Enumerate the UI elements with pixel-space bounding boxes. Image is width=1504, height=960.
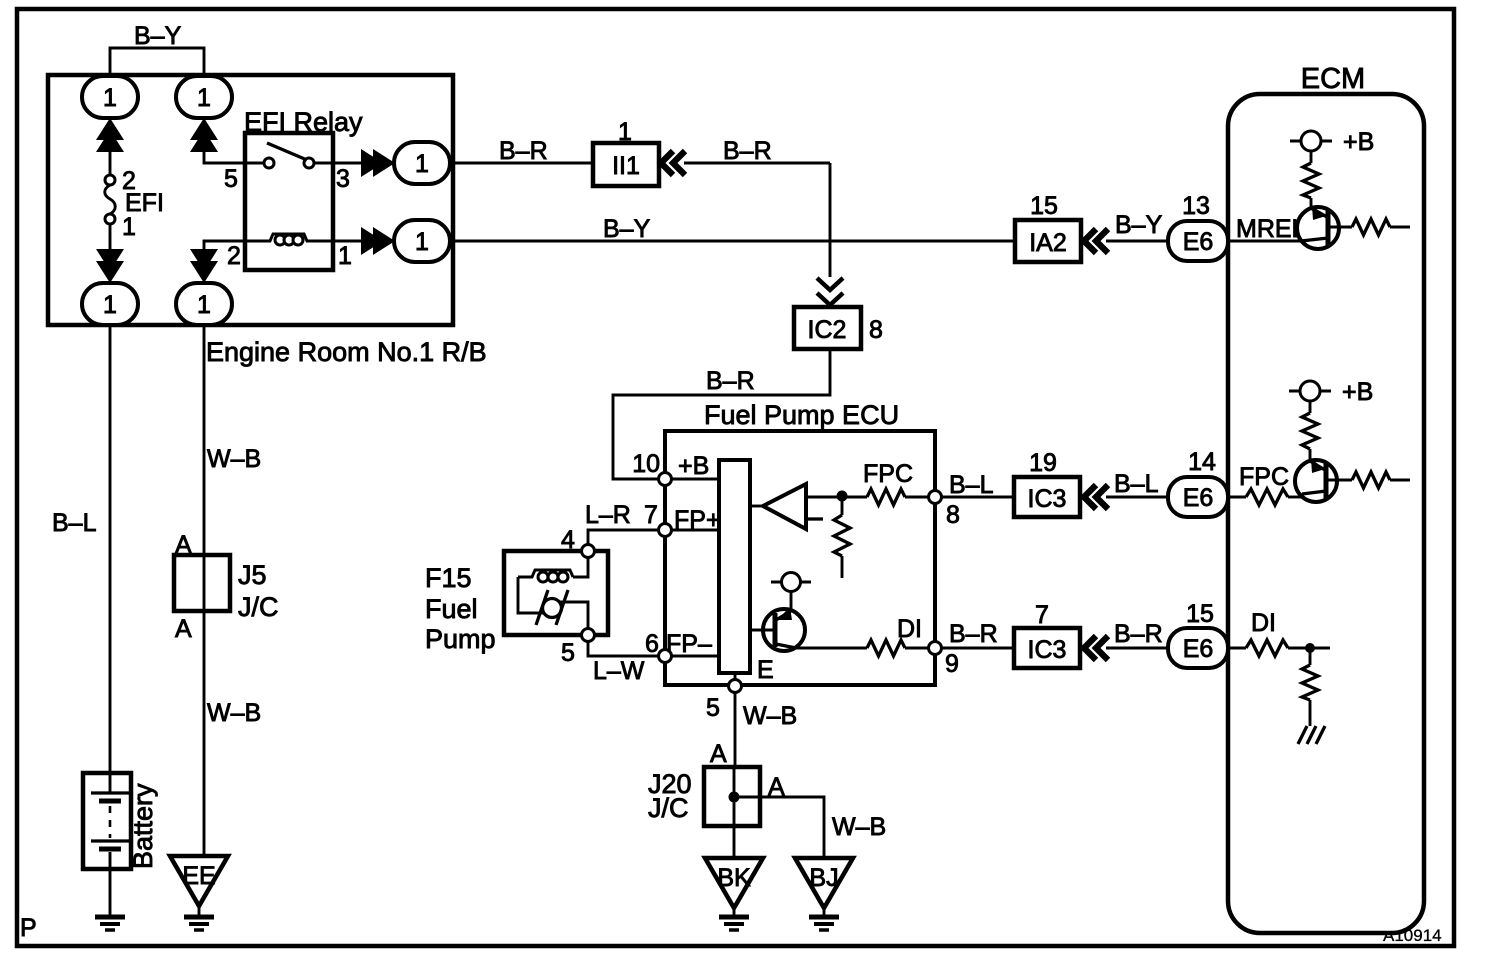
arrow right solid row1	[361, 149, 395, 177]
svg-text:B–Y: B–Y	[603, 215, 651, 243]
svg-text:FPC: FPC	[863, 460, 913, 488]
svg-text:B–R: B–R	[1114, 620, 1163, 648]
pump motor slashes	[536, 590, 568, 625]
fuse EFI	[105, 175, 116, 224]
ground triangle EE	[170, 856, 228, 906]
svg-text:ECM: ECM	[1301, 63, 1365, 95]
svg-text:15: 15	[1030, 192, 1058, 220]
svg-text:BK: BK	[717, 864, 751, 892]
wire ECU pin5 to J20	[734, 692, 737, 767]
pin 5 ECU bottom	[729, 680, 742, 693]
wire col2 top to relay pin5	[204, 150, 245, 163]
resistor base FPC	[1328, 472, 1410, 488]
svg-text:A: A	[710, 740, 727, 768]
arrow chevrons into IC3 row2	[1084, 485, 1108, 509]
wire B-Y long from connector to IA2	[450, 240, 1015, 243]
ground EE	[184, 917, 214, 930]
connector E6 row1	[1168, 221, 1228, 261]
wire amp to pin8 FPC	[806, 496, 867, 499]
wire bar bottom to pin5	[734, 673, 737, 680]
svg-text:19: 19	[1029, 449, 1057, 477]
wire L-R pin7 to pump pin4	[588, 530, 658, 545]
svg-text:7: 7	[644, 501, 658, 529]
svg-text:10: 10	[632, 450, 660, 478]
fuel pump F15 box	[504, 551, 608, 635]
svg-text:1: 1	[103, 84, 117, 112]
svg-text:Pump: Pump	[425, 624, 496, 654]
svg-text:DI: DI	[897, 615, 922, 643]
svg-text:E6: E6	[1183, 635, 1214, 663]
wire B-L battery feed	[109, 325, 112, 773]
connector IA2	[1015, 220, 1081, 262]
svg-text:6: 6	[645, 630, 659, 658]
svg-text:1: 1	[415, 228, 429, 256]
arrow chevrons into IA2	[1084, 229, 1108, 253]
svg-text:J/C: J/C	[648, 793, 689, 823]
svg-text:W–B: W–B	[207, 445, 261, 473]
ground triangle BJ	[795, 858, 853, 908]
resistor vertical row2	[1302, 401, 1318, 461]
wire L-W pump pin5 to pin6	[588, 641, 658, 656]
svg-text:B–Y: B–Y	[1115, 211, 1163, 239]
svg-text:Battery: Battery	[128, 783, 158, 869]
wire chevron to E6 row2	[1106, 496, 1168, 499]
connector IC3 row2	[1014, 477, 1080, 517]
svg-text:J/C: J/C	[238, 592, 279, 622]
wire pin8 to IC3 B-L	[941, 496, 1014, 499]
junction connector J20	[704, 767, 760, 826]
wire relay pin1 to connector	[333, 240, 368, 243]
connector IC2	[794, 307, 861, 349]
wire J20 down to BK	[733, 826, 736, 858]
relay coil	[245, 234, 333, 245]
arrow down solid col2	[190, 249, 218, 283]
wire chevron to E6 row3	[1106, 647, 1168, 650]
svg-text:L–W: L–W	[593, 657, 645, 685]
pin 10 +B	[659, 473, 672, 486]
svg-text:A: A	[175, 615, 192, 643]
wire E6 to DI resistor	[1228, 647, 1246, 650]
svg-text:E: E	[757, 656, 774, 684]
pump inductor coil	[518, 570, 573, 582]
wire B-R from junction to II1	[684, 162, 830, 165]
wire E6 to FPC resistor	[1228, 496, 1246, 499]
ground triangle BK	[705, 858, 763, 908]
svg-text:IC2: IC2	[808, 316, 847, 344]
wire pin9 to IC3 B-R	[941, 647, 1014, 650]
pump pin 5	[582, 629, 595, 642]
transistor FPC	[1295, 459, 1337, 502]
svg-text:P: P	[20, 914, 37, 942]
resistor base MREL	[1330, 219, 1410, 235]
arrow chevrons into IC3 row3	[1084, 636, 1108, 660]
resistor FPC ecm	[1246, 489, 1288, 505]
amp minus stub	[808, 517, 823, 520]
wire B-R from IC2 down to ECU pin10	[613, 349, 830, 479]
svg-text:5: 5	[706, 694, 720, 722]
svg-text:Fuel: Fuel	[425, 594, 478, 624]
resistor vertical below dot	[834, 497, 850, 578]
svg-text:E6: E6	[1183, 484, 1214, 512]
resistor vertical DI pulldown	[1302, 648, 1318, 726]
wire pump internal right	[560, 602, 588, 629]
svg-text:J5: J5	[238, 560, 267, 590]
relay switch contact	[245, 143, 333, 168]
svg-text:7: 7	[1035, 601, 1049, 629]
wire BJ to ground	[823, 908, 826, 916]
EFI Relay box	[245, 133, 333, 270]
transistor Q ECU	[763, 607, 805, 651]
connector E6 row2	[1168, 477, 1228, 517]
wire pin7 to bar	[671, 529, 719, 532]
svg-text:+B: +B	[678, 452, 709, 480]
wire battery to ground	[109, 869, 112, 916]
wire vertical down to IC2	[829, 163, 832, 277]
svg-text:E6: E6	[1183, 228, 1214, 256]
svg-text:13: 13	[1182, 192, 1210, 220]
svg-text:3: 3	[336, 165, 350, 193]
node circle symbol above transistor	[771, 573, 811, 592]
node dot FPC	[837, 491, 848, 502]
svg-text:B–L: B–L	[949, 471, 994, 499]
connector 1 right row1	[394, 142, 450, 184]
svg-text:B–Y: B–Y	[134, 22, 182, 50]
pump motor circle	[543, 599, 562, 618]
wire fuse bottom lead	[109, 224, 112, 250]
arrow down solid col1	[96, 249, 124, 283]
svg-text:W–B: W–B	[207, 699, 261, 727]
svg-text:EE: EE	[182, 862, 215, 890]
ground BJ	[809, 917, 839, 930]
wire bar to transistor base	[750, 629, 773, 632]
connector 1 bottom-left	[82, 283, 138, 325]
pin 7 FP+	[659, 524, 672, 537]
driver bar in ECU	[719, 460, 750, 673]
svg-text:B–L: B–L	[52, 509, 97, 537]
wire B-R connector to II1	[450, 162, 593, 165]
arrow up solid col1	[96, 118, 124, 152]
wire J20 branch to BJ	[734, 797, 824, 858]
svg-text:B–R: B–R	[706, 367, 755, 395]
svg-text:B–R: B–R	[499, 137, 548, 165]
svg-text:Fuel Pump ECU: Fuel Pump ECU	[704, 400, 899, 430]
svg-text:15: 15	[1186, 600, 1214, 628]
connector 1 top-second	[176, 76, 232, 118]
svg-text:1: 1	[197, 84, 211, 112]
svg-text:5: 5	[561, 639, 575, 667]
pump pin 4	[582, 545, 595, 558]
svg-text:DI: DI	[1251, 609, 1276, 637]
node dot DI	[1305, 643, 1315, 653]
svg-text:8: 8	[946, 501, 960, 529]
pin 8	[929, 491, 942, 504]
wire pin10 to bar	[671, 478, 719, 481]
svg-text:2: 2	[227, 242, 241, 270]
svg-text:IC3: IC3	[1028, 636, 1067, 664]
wire col2 relay pin2 to bottom connector	[204, 241, 245, 249]
svg-text:14: 14	[1188, 448, 1216, 476]
wire relay pin3 to connector	[333, 162, 368, 165]
svg-text:1: 1	[415, 150, 429, 178]
svg-text:8: 8	[869, 316, 883, 344]
svg-text:1: 1	[103, 291, 117, 319]
amp triangle in ECU	[763, 484, 806, 529]
pin 9	[929, 642, 942, 655]
wire bar to amp	[750, 505, 763, 508]
power symbol +B row1	[1290, 131, 1332, 151]
svg-text:BJ: BJ	[809, 864, 838, 892]
arrow up solid col2	[190, 118, 218, 152]
ground chassis DI	[1298, 726, 1325, 744]
svg-text:FP–: FP–	[666, 630, 712, 658]
ground BK	[719, 917, 749, 930]
svg-text:L–R: L–R	[585, 501, 631, 529]
junction connector J5	[174, 555, 230, 611]
svg-text:Engine Room No.1 R/B: Engine Room No.1 R/B	[206, 337, 487, 367]
battery	[83, 773, 131, 869]
wire B-Y jumper bracket above connectors	[110, 48, 204, 76]
wire transistor to DI resistor	[796, 647, 867, 650]
svg-text:FPC: FPC	[1239, 463, 1289, 491]
Engine Room No.1 R/B box	[48, 75, 453, 325]
ECM box	[1228, 94, 1424, 933]
wire resistor to pin8	[905, 496, 929, 499]
connector IC3 row3	[1014, 628, 1080, 668]
connector E6 row3	[1168, 628, 1228, 668]
svg-text:1: 1	[338, 242, 352, 270]
wire pin6 to bar	[671, 655, 719, 658]
svg-text:EFI Relay: EFI Relay	[244, 107, 363, 137]
svg-text:IC3: IC3	[1028, 485, 1067, 513]
wire MREL E6 to transistor	[1228, 240, 1302, 243]
wire J5 to EE ground	[203, 611, 206, 856]
svg-text:IA2: IA2	[1029, 229, 1067, 257]
wire resistor to pin9	[905, 647, 929, 650]
resistor DI ecm	[1246, 640, 1288, 656]
arrow right solid row2	[361, 227, 395, 255]
resistor DI internal	[867, 640, 905, 656]
svg-text:B–L: B–L	[1114, 470, 1159, 498]
Fuel Pump ECU box	[665, 431, 935, 685]
arrow chevrons down into IC2	[817, 278, 843, 305]
wire node to transistor	[790, 592, 793, 611]
ground battery	[95, 917, 125, 930]
svg-text:+B: +B	[1343, 128, 1374, 156]
svg-text:1: 1	[122, 213, 136, 241]
svg-text:9: 9	[945, 650, 959, 678]
connector 1 bottom-second	[176, 283, 232, 325]
svg-text:II1: II1	[612, 152, 640, 180]
wire pump internal top	[573, 557, 588, 577]
wire DI resistor to node	[1288, 647, 1330, 650]
resistor vertical row1	[1303, 151, 1319, 208]
svg-text:+B: +B	[1342, 378, 1373, 406]
svg-text:F15: F15	[425, 563, 472, 593]
wire W-B column2 down	[203, 325, 206, 555]
resistor FPC internal	[867, 489, 905, 505]
svg-text:B–R: B–R	[949, 620, 998, 648]
svg-text:5: 5	[224, 165, 238, 193]
connector II1	[593, 143, 659, 186]
wire chevron to E6 row1	[1106, 240, 1168, 243]
arrow chevrons into II1	[661, 151, 685, 175]
wire fuse top lead	[109, 150, 112, 175]
transistor MREL	[1297, 206, 1339, 249]
wire FPC resistor to transistor	[1288, 496, 1302, 499]
connector 1 top-left	[82, 76, 138, 118]
svg-text:1: 1	[197, 291, 211, 319]
wire BK to ground	[733, 908, 736, 916]
svg-text:W–B: W–B	[832, 813, 886, 841]
wire pump internal left	[518, 577, 545, 613]
power symbol +B row2	[1289, 381, 1331, 401]
connector 1 right row2	[394, 220, 450, 262]
wire EE to ground	[198, 906, 201, 916]
pin 6 FP-	[659, 650, 672, 663]
svg-text:W–B: W–B	[743, 702, 797, 730]
svg-text:B–R: B–R	[723, 137, 772, 165]
